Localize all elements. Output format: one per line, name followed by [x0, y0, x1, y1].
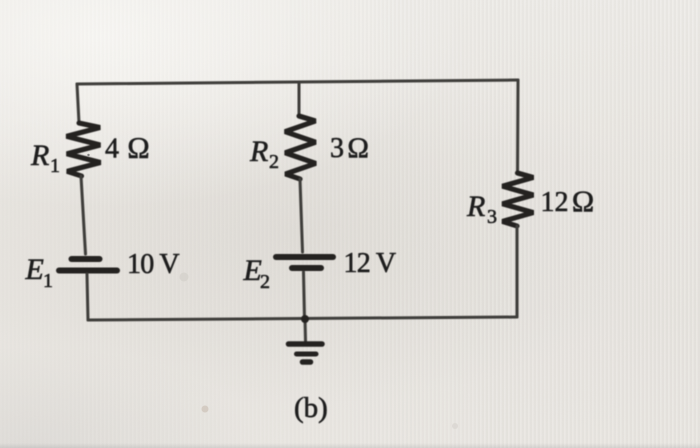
svg-text:12: 12 [541, 187, 569, 218]
svg-text:Ω: Ω [572, 186, 595, 219]
svg-text:1: 1 [50, 155, 60, 177]
svg-text:E: E [243, 254, 262, 287]
svg-text:Ω: Ω [127, 132, 150, 165]
svg-text:R: R [249, 135, 268, 168]
svg-text:E: E [25, 253, 44, 286]
svg-text:12 V: 12 V [344, 248, 396, 279]
svg-text:R: R [466, 190, 485, 223]
svg-text:3: 3 [487, 206, 497, 228]
svg-text:1: 1 [43, 270, 53, 292]
svg-text:4: 4 [105, 134, 119, 165]
svg-text:2: 2 [260, 271, 270, 293]
svg-text:Ω: Ω [347, 133, 369, 165]
svg-text:(b): (b) [294, 392, 328, 424]
svg-text:2: 2 [269, 151, 279, 173]
svg-text:R: R [30, 139, 49, 172]
svg-text:3: 3 [330, 133, 344, 164]
svg-text:10 V: 10 V [127, 249, 179, 280]
